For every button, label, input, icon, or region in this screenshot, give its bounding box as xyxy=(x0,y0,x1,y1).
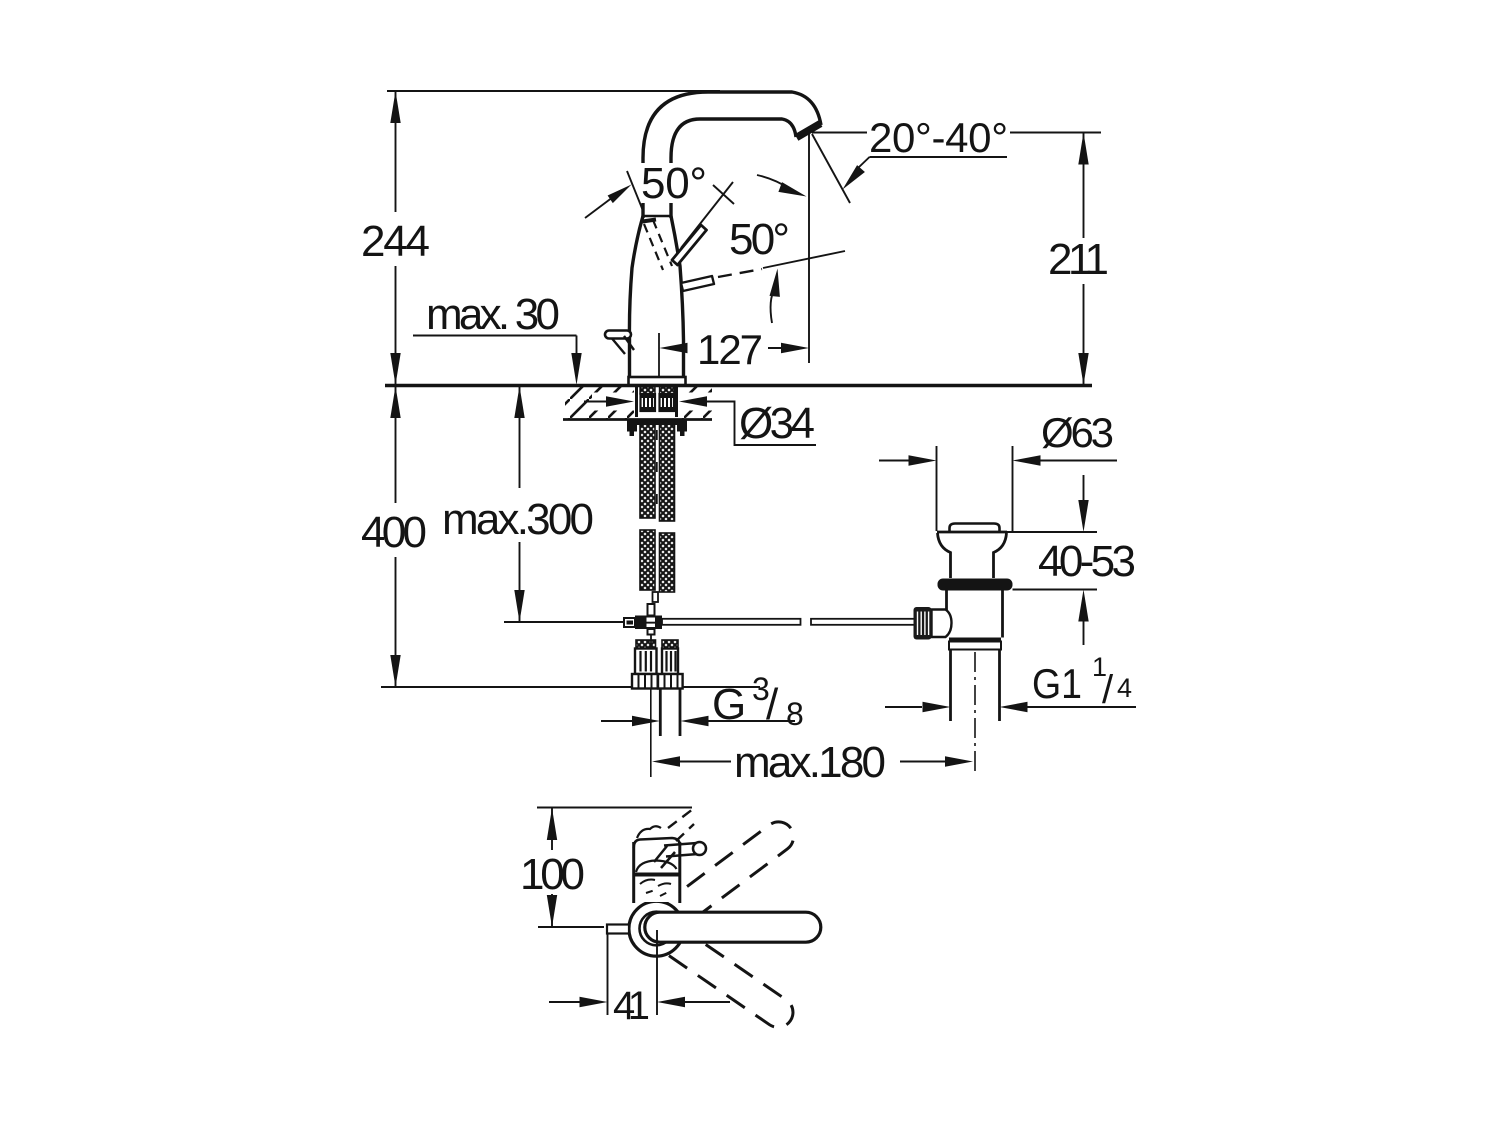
dimension 400 line xyxy=(395,386,397,503)
max.30 leader and arrow xyxy=(413,335,577,337)
drain locknut washer xyxy=(949,642,1001,650)
raised lever ghost dashes xyxy=(668,809,693,828)
drain knurled knob xyxy=(914,607,932,640)
svg-text:41: 41 xyxy=(613,984,650,1028)
faucet centerline tick xyxy=(658,333,660,377)
G3/8 connector nuts xyxy=(635,649,678,675)
hose end braid caps xyxy=(636,640,656,649)
rod tee connector stub above xyxy=(648,604,655,616)
upper 50deg left leader arrow xyxy=(585,197,613,218)
dimension dia34 arrows xyxy=(584,401,608,403)
pull rod hidden dashes between hoses xyxy=(656,430,658,515)
rod tee connector body xyxy=(635,616,662,630)
dome arc xyxy=(636,861,677,873)
drain centerline xyxy=(974,652,976,776)
drain body xyxy=(945,591,948,613)
spout outer contour xyxy=(643,92,821,218)
body column sides xyxy=(632,842,635,903)
deck bottom line xyxy=(563,418,712,421)
spout-body joint line xyxy=(643,215,671,218)
drain body bottom band xyxy=(949,638,1001,642)
mounting shank sides xyxy=(635,387,638,417)
flexible hose lower segments xyxy=(640,530,655,590)
upper 50deg left reference slant line xyxy=(627,171,644,212)
lower 50deg ghost aerator xyxy=(681,276,714,291)
deck top line xyxy=(385,384,1092,388)
drain tailpipe xyxy=(949,650,952,722)
dia34 leader to label xyxy=(706,402,816,446)
joint tick bar xyxy=(643,220,657,222)
pull rod stub top view xyxy=(607,925,629,934)
extension line at max.300 bottom / pull rod level xyxy=(504,621,625,623)
lever pin top view xyxy=(664,843,697,846)
handle capsule xyxy=(645,912,821,942)
body left edge xyxy=(629,216,643,377)
hub circle xyxy=(629,901,684,956)
flexible hose upper segments xyxy=(640,424,655,518)
braid tops in deck hole xyxy=(640,387,655,394)
extension line at 400 bottom xyxy=(381,686,760,688)
inner hub circle xyxy=(640,912,674,946)
drain pull knob on body xyxy=(605,331,631,339)
dimension 41 xyxy=(607,934,609,1015)
lower 50deg arc arrow xyxy=(771,288,775,323)
ghost handle swung up xyxy=(647,816,799,941)
G3/8 threaded pipe xyxy=(659,689,662,737)
body top cap outline xyxy=(634,838,680,848)
drain seal ring xyxy=(938,579,1013,591)
svg-text:max.180: max.180 xyxy=(734,738,886,787)
svg-text:max. 30: max. 30 xyxy=(426,290,560,339)
svg-text:127: 127 xyxy=(697,326,763,373)
svg-text:100: 100 xyxy=(520,850,585,899)
extension line from spout tip down xyxy=(808,134,810,363)
dimension 100 xyxy=(537,807,692,809)
pull rod horizontal left segment xyxy=(662,619,801,625)
svg-text:Ø63: Ø63 xyxy=(1041,409,1114,456)
extension line 211 top xyxy=(1010,132,1101,134)
svg-text:244: 244 xyxy=(361,217,430,266)
dimension 211 line xyxy=(1083,133,1085,239)
svg-text:50°: 50° xyxy=(729,215,790,264)
svg-text:4: 4 xyxy=(1117,673,1132,703)
svg-text:40-53: 40-53 xyxy=(1038,537,1136,586)
spout tip swing reference line xyxy=(812,134,850,203)
body column whiteout xyxy=(635,840,678,902)
dimension dia63 xyxy=(936,446,938,531)
whiteout for dia34 arrows xyxy=(592,393,634,411)
spout tip aerator face xyxy=(797,124,821,138)
extension line, spout top level xyxy=(387,90,720,92)
horseshoe washer under deck xyxy=(627,420,687,426)
svg-text:8: 8 xyxy=(786,696,804,732)
20-40 underline and leader arrow xyxy=(870,156,1008,158)
collar band xyxy=(634,873,680,877)
body right edge xyxy=(671,216,684,377)
left connector centerline xyxy=(650,689,652,777)
base flange xyxy=(629,377,686,385)
svg-text:max.300: max.300 xyxy=(442,495,594,544)
svg-text:Ø34: Ø34 xyxy=(739,399,815,448)
dimension 244 line xyxy=(395,91,397,212)
mounting nuts in deck hole xyxy=(641,394,675,411)
svg-text:400: 400 xyxy=(361,508,427,557)
pull rod horizontal right segment xyxy=(811,619,915,625)
deck hatch left block xyxy=(565,387,634,420)
rod tee left nub xyxy=(624,618,635,627)
G3/8 hex bases xyxy=(632,674,683,689)
deck hatch right block xyxy=(679,387,712,420)
svg-text:G1: G1 xyxy=(1032,660,1082,707)
spout inner contour xyxy=(671,119,796,218)
svg-text:/: / xyxy=(766,680,779,729)
svg-text:/: / xyxy=(1102,668,1114,712)
dimension 40-53 xyxy=(1006,531,1097,533)
cartridge hidden dashed lines xyxy=(644,224,663,270)
pull rod below hoses xyxy=(653,592,659,602)
upper 50deg right arc arrow xyxy=(757,175,790,189)
dimension 127 xyxy=(660,343,688,353)
ghost handle swung down xyxy=(648,916,799,1033)
upper 50deg whiteout xyxy=(636,163,712,203)
lever axis line and pivot cross xyxy=(681,182,733,248)
svg-text:20°-40°: 20°-40° xyxy=(869,114,1008,161)
dimension G3/8 xyxy=(601,720,632,722)
20-40 label side line xyxy=(812,132,867,134)
dimension max.300 line xyxy=(519,386,521,488)
svg-text:G: G xyxy=(712,680,746,729)
lever handle xyxy=(672,225,707,265)
svg-text:211: 211 xyxy=(1048,235,1109,284)
dimension max.180 xyxy=(652,756,680,766)
drain flange top line xyxy=(937,531,1007,534)
svg-text:50°: 50° xyxy=(641,159,707,208)
rod tee stub below xyxy=(648,629,655,635)
neck scribbles xyxy=(640,880,655,885)
dimension G1 1/4 xyxy=(885,706,922,708)
drain plug cap xyxy=(950,524,1000,532)
drain flange xyxy=(938,533,951,578)
drain rod connector block xyxy=(932,610,952,638)
